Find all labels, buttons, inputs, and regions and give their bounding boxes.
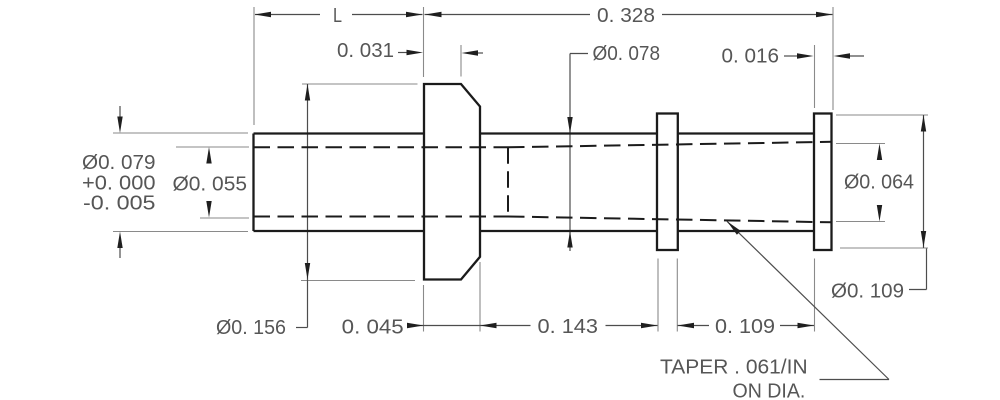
svg-text:0. 016: 0. 016	[722, 46, 780, 68]
svg-text:0. 328: 0. 328	[597, 5, 655, 27]
svg-text:0. 031: 0. 031	[337, 40, 394, 62]
svg-text:Ø0. 078: Ø0. 078	[593, 43, 661, 65]
svg-text:Ø0. 079: Ø0. 079	[82, 152, 156, 174]
svg-text:L: L	[333, 5, 342, 27]
svg-text:0. 143: 0. 143	[538, 316, 599, 338]
svg-text:Ø0. 156: Ø0. 156	[216, 317, 286, 339]
svg-text:0. 045: 0. 045	[342, 317, 404, 339]
svg-text:-0. 005: -0. 005	[83, 193, 156, 215]
svg-text:Ø0. 064: Ø0. 064	[844, 172, 914, 194]
svg-text:TAPER . 061/IN: TAPER . 061/IN	[660, 357, 808, 379]
svg-text:Ø0. 055: Ø0. 055	[173, 174, 248, 196]
svg-text:0. 109: 0. 109	[715, 316, 775, 338]
svg-text:ON DIA.: ON DIA.	[733, 381, 806, 400]
svg-text:+0. 000: +0. 000	[82, 173, 156, 195]
svg-text:Ø0. 109: Ø0. 109	[831, 281, 904, 303]
